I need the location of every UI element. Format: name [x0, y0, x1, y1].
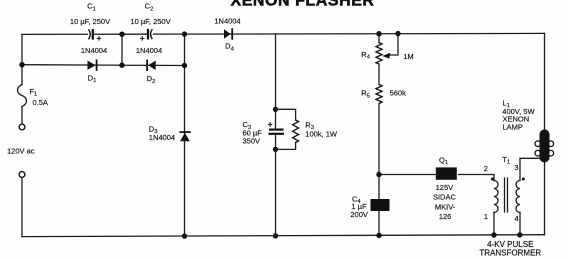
svg-text:1N4004: 1N4004: [81, 46, 107, 55]
svg-text:4: 4: [514, 214, 518, 223]
svg-text:TRANSFORMER: TRANSFORMER: [479, 248, 541, 257]
svg-text:1N4004: 1N4004: [136, 46, 162, 55]
svg-text:R5: R5: [361, 89, 370, 100]
svg-text:10 µF, 250V: 10 µF, 250V: [70, 17, 110, 26]
svg-text:+: +: [268, 119, 273, 129]
svg-text:200V: 200V: [350, 210, 368, 219]
svg-text:XENON FLASHER: XENON FLASHER: [230, 0, 374, 10]
svg-text:T1: T1: [502, 155, 510, 166]
svg-text:0.5A: 0.5A: [33, 98, 48, 107]
svg-text:LAMP: LAMP: [503, 122, 523, 131]
svg-text:C1: C1: [87, 2, 96, 13]
svg-text:MKIV-: MKIV-: [435, 203, 456, 212]
svg-text:10 µF, 250V: 10 µF, 250V: [130, 17, 170, 26]
svg-text:100k, 1W: 100k, 1W: [305, 129, 338, 138]
svg-text:SIDAC: SIDAC: [433, 192, 457, 201]
svg-text:125V: 125V: [436, 183, 454, 192]
svg-text:D2: D2: [147, 74, 156, 85]
svg-text:560k: 560k: [390, 89, 407, 98]
svg-text:1: 1: [484, 212, 488, 221]
svg-text:1N4004: 1N4004: [149, 133, 175, 142]
svg-text:2: 2: [484, 164, 488, 173]
svg-text:R4: R4: [361, 50, 370, 61]
svg-text:D1: D1: [88, 74, 97, 85]
svg-text:+: +: [140, 33, 145, 43]
svg-text:F1: F1: [29, 87, 37, 98]
svg-text:3: 3: [514, 163, 518, 172]
svg-text:C2: C2: [145, 2, 154, 13]
svg-text:126: 126: [439, 212, 452, 221]
svg-text:120V ac: 120V ac: [7, 147, 35, 156]
svg-text:+: +: [97, 33, 102, 43]
svg-text:Q1: Q1: [439, 155, 448, 166]
svg-text:1M: 1M: [403, 52, 413, 61]
svg-text:350V: 350V: [243, 136, 261, 145]
svg-text:1N4004: 1N4004: [214, 17, 240, 26]
svg-text:D4: D4: [225, 42, 234, 53]
